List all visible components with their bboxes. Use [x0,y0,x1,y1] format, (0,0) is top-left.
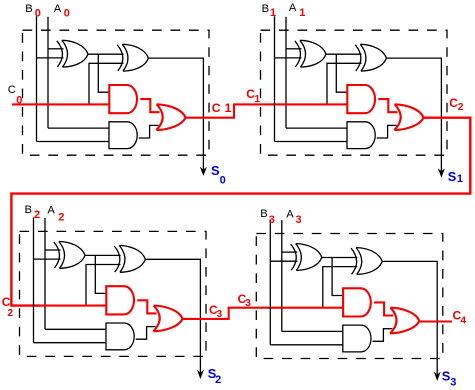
wire: B1 into AND gate A2 bottom input [275,141,348,143]
svg-text:C: C [449,96,458,110]
wire: B3 into AND gate A2 bottom input [270,344,343,346]
xor gate X1 (A3 xor B3) [291,244,322,271]
full-adder bit 3 dashed boundary box [256,234,443,359]
wire: sum S1 from X2 output down through box [386,58,441,173]
wire: input A2 vertical line [44,218,46,329]
and gate A1 (carry and) highlighted red [347,85,375,113]
wire: X1 output branch down to AND gate A1 top input [98,54,109,92]
wire: red A1 output step down into OR gate top input [137,300,156,313]
wire: B2 into AND gate A2 bottom input [34,342,107,344]
svg-text:2: 2 [34,209,40,221]
svg-text:1: 1 [225,101,232,115]
arrowhead on S0 output [200,167,207,176]
wire: red carry-in segment to AND gate A1 [274,307,343,309]
full-adder bit 0 dashed boundary box [23,30,210,155]
svg-text:4: 4 [461,315,467,326]
wire: input A0 vertical line [47,17,49,128]
or gate O1 (carry out) highlighted red [156,104,185,130]
svg-text:S: S [448,169,457,184]
svg-text:3: 3 [217,309,223,320]
svg-text:0: 0 [16,94,22,106]
svg-text:C: C [8,84,16,96]
svg-text:3: 3 [450,377,456,389]
wire: input B3 vertical line [269,220,271,345]
svg-text:2: 2 [58,211,64,223]
svg-text:B: B [25,204,32,216]
full adder FA3 (bit 2) [20,217,207,379]
wire: A0 into AND gate A2 top input [48,127,109,129]
svg-text:3: 3 [296,214,302,226]
wire: carry-in riser to XOR2 bottom input [89,63,124,104]
wire: X1 output branch down to AND gate A1 top input [336,54,347,92]
svg-text:A: A [289,2,297,14]
wire: red carry-in segment to AND gate A1 [37,305,106,307]
xor gate X2 (sum S0) [117,44,148,71]
or gate O1 (carry out) highlighted red [153,306,182,332]
wire: input A3 vertical line [281,220,283,331]
wire: input B0 vertical line [36,16,38,141]
wire: X1 output to XOR2 top input [322,257,358,259]
or gate O1 (carry out) highlighted red [394,104,423,130]
svg-text:1: 1 [270,7,276,19]
carry C2 wrap-around wire from FA2 down and left into FA3 [11,118,470,306]
and gate A1 (carry and) highlighted red [343,288,371,316]
wire: carry-in riser to XOR2 bottom input [327,63,362,104]
svg-text:0: 0 [64,7,70,19]
wire: A2 into AND gate A2 top input [45,328,106,330]
or gate O1 (carry out) highlighted red [390,308,419,334]
svg-text:1: 1 [457,173,463,185]
arrowhead on S2 output [197,370,204,379]
wire: input B2 vertical line [33,217,35,342]
wire: A0 into XOR1 top input [48,48,64,50]
svg-text:1: 1 [255,94,261,105]
arrowhead on S1 output [438,168,445,177]
wire: sum S2 from X2 output down through box [145,259,200,374]
wire: A2 output step up into OR gate bottom input [373,329,393,342]
svg-text:A: A [47,205,55,217]
wire: A3 into XOR1 top input [282,251,298,253]
wire: B0 into AND gate A2 bottom input [37,141,110,143]
xor gate X2 (sum S3) [351,248,382,275]
wire: X1 output branch down to AND gate A1 top input [95,255,106,293]
wire: A2 into XOR1 top input [45,249,61,251]
svg-text:A: A [54,3,62,15]
wire: B1 into XOR1 bottom input [275,57,302,59]
wire: red A1 output step down into OR gate top input [374,302,393,315]
xor gate X2 (sum S1) [355,44,386,71]
wire: sum S0 from X2 output down through box [148,58,203,171]
wire: B2 into XOR1 bottom input [34,258,61,260]
wire: X1 output to XOR2 top input [326,53,362,55]
wire: X1 output to XOR2 top input [85,254,121,256]
wire: X1 output branch down to AND gate A1 top input [332,258,343,296]
svg-text:A: A [286,209,294,221]
xor gate X1 (A1 xor B1) [295,40,326,67]
full adder FA1 (bit 0) [23,16,210,176]
wire: A2 output step up into OR gate bottom input [136,327,156,340]
xor gate X1 (A2 xor B2) [54,242,85,269]
svg-text:3: 3 [245,298,251,309]
wire: B3 into XOR1 bottom input [270,260,297,262]
wire: red carry-in segment to AND gate A1 [40,103,109,105]
wire: input B1 vertical line [274,16,276,141]
xor gate X2 (sum S2) [114,246,145,273]
carry C1 wire from FA1 to FA2 [186,104,281,117]
carry out C4 wire [419,320,452,322]
svg-text:B: B [25,3,32,15]
full adder FA2 (bit 1) [261,16,448,177]
wire: red A1 output step down into OR gate top input [140,99,159,112]
and gate A1 (carry and) highlighted red [106,286,134,314]
wire: A1 into XOR1 top input [286,48,302,50]
svg-text:2: 2 [458,102,464,113]
xor gate X1 (A0 xor B0) [57,40,88,67]
full-adder bit 2 dashed boundary box [20,231,207,356]
and gate A2 (A3 and B3) [343,325,371,352]
full adder FA4 (bit 3) [256,220,443,381]
wire: red A1 output step down into OR gate top input [378,99,397,112]
and gate A2 (A0 and B0) [109,122,137,149]
wire: B0 into XOR1 bottom input [37,57,64,59]
svg-text:C: C [212,101,221,115]
wire: A2 output step up into OR gate bottom input [139,125,159,138]
and gate A2 (A2 and B2) [106,323,134,350]
carry C3 wire from FA3 to FA4 [183,308,276,319]
wire: red carry-in segment to AND gate A1 [278,103,347,105]
svg-text:0: 0 [220,174,226,186]
wire: A2 output step up into OR gate bottom input [377,125,397,138]
wire: sum S3 from X2 output down through box [382,261,437,376]
wire: A1 into AND gate A2 top input [286,127,347,129]
carry-in C0 wire [12,103,41,105]
full-adder bit 1 dashed boundary box [261,30,448,155]
wire: A3 into AND gate A2 top input [282,330,343,332]
svg-text:B: B [262,3,269,15]
svg-text:3: 3 [269,214,275,226]
arrowhead on S3 output [434,372,441,381]
svg-text:B: B [260,208,267,220]
svg-text:2: 2 [8,308,14,319]
wire: carry-in riser to XOR2 bottom input [323,267,358,308]
and gate A2 (A1 and B1) [347,122,375,149]
svg-text:0: 0 [35,7,41,19]
wire: carry-in riser to XOR2 bottom input [86,265,121,306]
wire: X1 output to XOR2 top input [88,53,124,55]
svg-text:2: 2 [215,374,221,386]
svg-text:1: 1 [299,7,305,19]
wire: input A1 vertical line [285,17,287,128]
and gate A1 (carry and) highlighted red [109,85,137,113]
